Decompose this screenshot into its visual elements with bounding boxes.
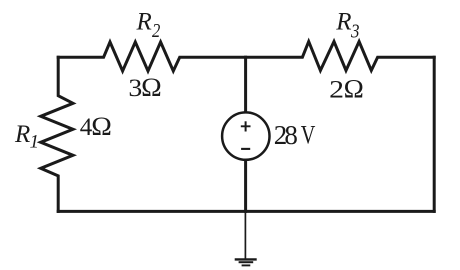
svg-text:2: 2 xyxy=(329,76,344,103)
svg-text:2: 2 xyxy=(152,20,160,42)
svg-text:V: V xyxy=(301,120,316,150)
svg-text:R: R xyxy=(136,9,152,36)
svg-text:R: R xyxy=(335,9,351,36)
svg-text:3: 3 xyxy=(350,21,359,43)
svg-text:R: R xyxy=(14,121,30,148)
svg-text:Ω: Ω xyxy=(141,73,162,102)
svg-text:Ω: Ω xyxy=(344,74,364,103)
svg-text:1: 1 xyxy=(30,131,40,152)
svg-text:8: 8 xyxy=(284,120,298,150)
svg-text:Ω: Ω xyxy=(91,112,112,141)
